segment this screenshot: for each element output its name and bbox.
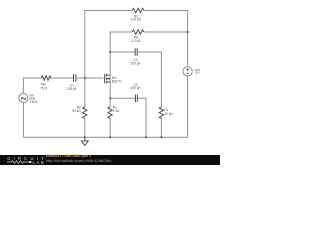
svg-text:50 kΩ: 50 kΩ: [72, 109, 81, 113]
svg-text:100 µF: 100 µF: [131, 86, 141, 90]
svg-text:100 µF: 100 µF: [67, 87, 77, 91]
svg-text:15 V: 15 V: [195, 71, 201, 75]
svg-text:10 kΩ: 10 kΩ: [164, 112, 173, 116]
svg-text:100 µF: 100 µF: [131, 62, 141, 66]
svg-text:100 kΩ: 100 kΩ: [131, 18, 142, 22]
svg-text:75 Ω: 75 Ω: [40, 87, 47, 91]
svg-text:2.2 kΩ: 2.2 kΩ: [131, 39, 141, 43]
svg-text:1 kΩ: 1 kΩ: [113, 109, 120, 113]
svg-text:BS170: BS170: [112, 79, 122, 83]
svg-text:http://circuitlab.com/c/h5tr12: http://circuitlab.com/c/h5tr1296/5b4: [46, 158, 113, 163]
svg-text:LAB: LAB: [33, 160, 46, 165]
svg-text:1 kHz: 1 kHz: [29, 100, 38, 104]
